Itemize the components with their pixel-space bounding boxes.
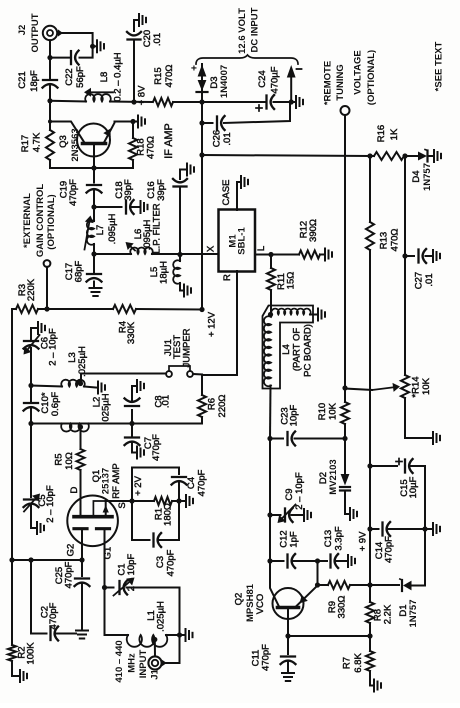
svg-text:R: R xyxy=(222,274,233,281)
svg-text:.025µH: .025µH xyxy=(77,346,88,377)
svg-text:L.P. FILTER: L.P. FILTER xyxy=(152,203,163,253)
svg-text:+: + xyxy=(190,65,201,71)
svg-text:1K: 1K xyxy=(389,128,400,140)
svg-text:SBL-1: SBL-1 xyxy=(237,227,248,255)
svg-text:R15: R15 xyxy=(153,67,164,84)
svg-text:330K: 330K xyxy=(126,321,137,344)
svg-text:X: X xyxy=(206,245,217,252)
svg-text:2.2K: 2.2K xyxy=(383,604,394,624)
svg-text:390Ω: 390Ω xyxy=(308,219,319,242)
svg-text:1N757: 1N757 xyxy=(408,600,419,628)
svg-text:C24: C24 xyxy=(257,70,268,87)
svg-text:10pF: 10pF xyxy=(289,404,300,426)
svg-text:(OPTIONAL): (OPTIONAL) xyxy=(46,194,57,249)
svg-text:.01: .01 xyxy=(424,273,435,286)
svg-text:56pF: 56pF xyxy=(75,66,86,88)
svg-text:JUMPER: JUMPER xyxy=(182,328,193,367)
svg-text:470pF: 470pF xyxy=(166,549,177,576)
svg-text:R7: R7 xyxy=(342,657,353,669)
svg-text:C13: C13 xyxy=(323,530,334,547)
svg-text:.095µH: .095µH xyxy=(107,213,118,244)
svg-text:(OPTIONAL): (OPTIONAL) xyxy=(366,50,377,105)
svg-text:1N4007: 1N4007 xyxy=(219,65,230,98)
svg-text:025µH: 025µH xyxy=(101,393,112,421)
svg-text:39pF: 39pF xyxy=(156,179,167,201)
svg-text:220K: 220K xyxy=(26,278,37,301)
svg-text:.025µH: .025µH xyxy=(156,601,167,632)
svg-text:100K: 100K xyxy=(26,642,37,665)
svg-text:2 – 10pF: 2 – 10pF xyxy=(45,485,56,523)
svg-text:*SEE TEXT: *SEE TEXT xyxy=(434,41,445,91)
svg-text:RF AMP: RF AMP xyxy=(111,463,122,498)
svg-text:R13: R13 xyxy=(379,232,390,249)
svg-text:L8: L8 xyxy=(99,72,110,83)
svg-text:2 – 10pF: 2 – 10pF xyxy=(126,554,137,592)
svg-text:GAIN CONTROL: GAIN CONTROL xyxy=(35,184,46,258)
svg-text:39pF: 39pF xyxy=(123,179,134,201)
svg-text:TUNING: TUNING xyxy=(335,64,346,100)
svg-text:+ 12V: + 12V xyxy=(207,311,218,337)
svg-text:470pF: 470pF xyxy=(68,179,79,206)
svg-text:18pF: 18pF xyxy=(29,70,40,92)
svg-text:1pF: 1pF xyxy=(289,531,300,548)
svg-text:470pF: 470pF xyxy=(197,469,208,496)
svg-text:VOLTAGE: VOLTAGE xyxy=(353,50,364,95)
svg-text:+ 8V: + 8V xyxy=(137,85,148,105)
svg-text:4.7K: 4.7K xyxy=(32,132,43,152)
svg-text:(PART OF: (PART OF xyxy=(292,328,303,371)
svg-text:R5: R5 xyxy=(54,453,65,465)
svg-text:R6: R6 xyxy=(207,398,218,410)
svg-text:10K: 10K xyxy=(328,402,339,420)
svg-text:L4: L4 xyxy=(281,344,292,355)
svg-text:.01: .01 xyxy=(161,395,172,408)
svg-text:2N3563: 2N3563 xyxy=(70,128,81,161)
svg-text:0.2 – 0.4µH: 0.2 – 0.4µH xyxy=(113,52,124,101)
svg-text:S: S xyxy=(117,502,128,508)
svg-text:470pF: 470pF xyxy=(384,536,395,563)
svg-text:IF AMP: IF AMP xyxy=(163,123,175,158)
svg-text:470pF: 470pF xyxy=(151,434,162,461)
svg-text:C21: C21 xyxy=(17,71,28,88)
svg-text:25137: 25137 xyxy=(101,468,112,494)
svg-text:J1: J1 xyxy=(150,669,161,680)
svg-text:0.6pF: 0.6pF xyxy=(50,392,61,416)
svg-text:6.8K: 6.8K xyxy=(353,653,364,673)
svg-text:J2: J2 xyxy=(17,25,28,36)
svg-text:2 – 10pF: 2 – 10pF xyxy=(48,328,59,366)
svg-text:470µF: 470µF xyxy=(270,66,281,93)
svg-text:C3: C3 xyxy=(155,556,166,568)
svg-text:470pF: 470pF xyxy=(261,644,272,671)
svg-text:D: D xyxy=(69,486,80,493)
svg-text:18µH: 18µH xyxy=(159,261,170,284)
svg-text:*R14: *R14 xyxy=(411,376,422,397)
svg-text:12.6 VOLT: 12.6 VOLT xyxy=(237,8,248,54)
svg-text:10K: 10K xyxy=(421,377,432,395)
svg-text:L7: L7 xyxy=(95,225,106,236)
svg-text:G2: G2 xyxy=(66,544,77,557)
svg-text:470Ω: 470Ω xyxy=(164,65,175,88)
svg-text:OUTPUT: OUTPUT xyxy=(30,13,41,52)
svg-text:Q2: Q2 xyxy=(234,593,245,606)
svg-text:C22: C22 xyxy=(64,68,75,85)
svg-text:220Ω: 220Ω xyxy=(217,395,228,418)
svg-text:10µF: 10µF xyxy=(408,476,419,498)
svg-text:+ 9V: + 9V xyxy=(358,531,369,551)
svg-text:10Ω: 10Ω xyxy=(64,452,75,470)
svg-text:+ 2V: + 2V xyxy=(133,475,144,495)
svg-text:R10: R10 xyxy=(317,403,328,420)
svg-text:R16: R16 xyxy=(376,125,387,142)
svg-text:INPUT: INPUT xyxy=(138,650,149,679)
svg-text:3.3pF: 3.3pF xyxy=(334,526,345,550)
svg-text:330Ω: 330Ω xyxy=(337,596,348,619)
svg-text:D4: D4 xyxy=(411,170,422,182)
svg-text:VCO: VCO xyxy=(255,594,266,615)
svg-text:470pF: 470pF xyxy=(48,602,59,629)
svg-text:DC INPUT: DC INPUT xyxy=(250,7,261,52)
svg-text:*REMOTE: *REMOTE xyxy=(323,61,334,105)
svg-text:R17: R17 xyxy=(20,135,31,152)
svg-text:G1: G1 xyxy=(103,547,114,560)
svg-text:CASE: CASE xyxy=(221,180,232,206)
svg-text:*EXTERNAL: *EXTERNAL xyxy=(22,193,33,248)
svg-text:MV2103: MV2103 xyxy=(328,459,339,494)
svg-text:2 – 10pF: 2 – 10pF xyxy=(294,472,305,510)
svg-text:470Ω: 470Ω xyxy=(390,229,401,252)
svg-text:470Ω: 470Ω xyxy=(146,136,157,159)
svg-text:68pF: 68pF xyxy=(74,260,85,282)
svg-text:180Ω: 180Ω xyxy=(163,503,174,526)
svg-text:C26: C26 xyxy=(212,130,223,147)
svg-text:15Ω: 15Ω xyxy=(286,272,297,290)
svg-text:L: L xyxy=(256,246,267,251)
svg-text:MHz: MHz xyxy=(127,653,138,673)
svg-text:.01: .01 xyxy=(222,132,233,145)
svg-text:C27: C27 xyxy=(414,272,425,289)
svg-text:C4: C4 xyxy=(186,477,197,489)
svg-text:410 – 440: 410 – 440 xyxy=(114,640,125,682)
svg-text:.01: .01 xyxy=(152,33,163,46)
svg-text:PC BOARD): PC BOARD) xyxy=(303,324,314,377)
svg-text:Q3: Q3 xyxy=(58,135,69,148)
svg-text:470pF: 470pF xyxy=(64,561,75,588)
svg-text:1N757: 1N757 xyxy=(422,163,433,191)
